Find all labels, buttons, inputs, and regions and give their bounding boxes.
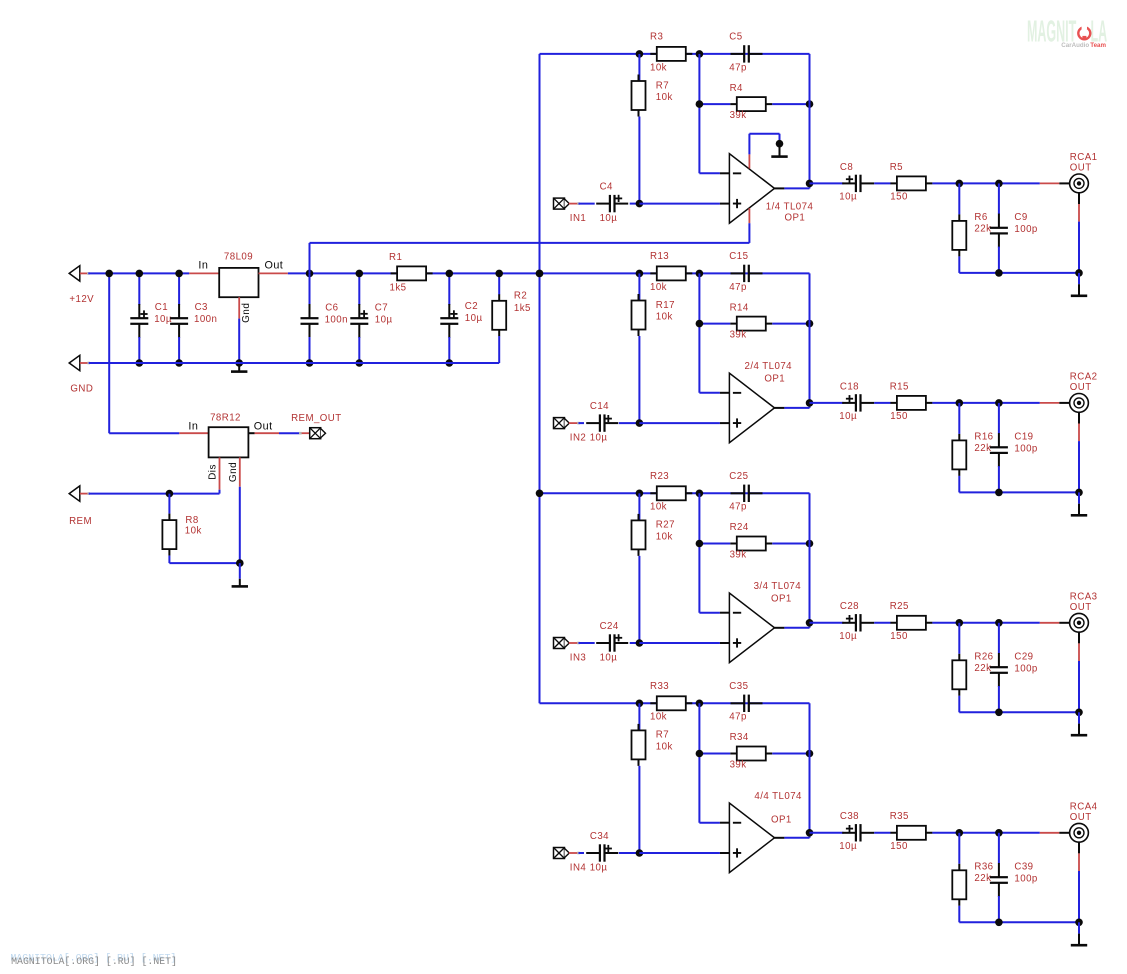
wire feedback column (809, 493, 811, 623)
junction (446, 270, 454, 278)
junction RCA ground (1075, 269, 1083, 277)
svg-text:47p: 47p (729, 712, 747, 723)
junction (495, 270, 503, 278)
capacitor C24 10u (596, 634, 628, 652)
wire output bottom row (959, 921, 1079, 923)
lead op-amp output (775, 627, 785, 629)
pin RCA2 ground (1078, 424, 1080, 442)
wire output (784, 837, 809, 839)
junction feedback top (696, 700, 704, 708)
wire input to cap (579, 422, 585, 424)
junction C9 bottom (995, 269, 1003, 277)
junction R4 right (806, 750, 814, 758)
lead inverting input (720, 612, 730, 614)
svg-text:R25: R25 (890, 601, 909, 612)
wire REM row (89, 493, 220, 495)
lead RCA (1059, 832, 1069, 834)
capacitor C1 10u (130, 304, 148, 338)
svg-text:3/4 TL074: 3/4 TL074 (754, 581, 802, 592)
resistor R23 10k (650, 486, 692, 500)
wire feedback column (809, 273, 811, 403)
svg-text:R2: R2 (514, 290, 527, 301)
capacitor C5 47p (731, 45, 763, 62)
wire to ground symbol (1078, 492, 1080, 503)
connector IN2 flag (554, 418, 570, 429)
pin 78L09 In (189, 272, 219, 274)
wire C1 bottom (138, 337, 140, 363)
wire to inverting input (699, 172, 720, 174)
wire to non-inverting input (639, 642, 720, 644)
wire C9 top (998, 833, 1000, 864)
pin V+ (748, 208, 750, 223)
junction (136, 359, 144, 367)
svg-text:C25: C25 (729, 471, 748, 482)
pin REM_OUT flag (300, 432, 310, 434)
lead RCA ground (1078, 412, 1080, 423)
svg-text:IN1: IN1 (570, 213, 586, 224)
svg-text:100p: 100p (1014, 663, 1037, 674)
wire R6 bottom (958, 476, 960, 493)
svg-text:47p: 47p (729, 282, 747, 293)
svg-text:R27: R27 (656, 520, 675, 531)
resistor R16 22k (952, 434, 966, 476)
svg-text:C1: C1 (155, 302, 168, 313)
pin IN3 (569, 642, 579, 644)
svg-text:C34: C34 (590, 831, 609, 842)
svg-text:10µ: 10µ (375, 315, 393, 326)
wire feedback column (809, 54, 811, 184)
svg-text:10µ: 10µ (839, 192, 857, 203)
junction R-div top (636, 50, 644, 58)
junction output node (806, 829, 814, 837)
svg-text:OUT: OUT (1070, 812, 1092, 823)
connector +12V arrow (69, 266, 80, 281)
logo MAGNITOLA top right (1027, 15, 1107, 49)
junction R-div top (636, 270, 644, 278)
junction RCA ground (1075, 709, 1083, 717)
svg-text:C14: C14 (590, 401, 609, 412)
wire R-div column lower (638, 117, 640, 204)
wire R-div column lower (638, 766, 640, 853)
op-amp 4/4 TL074 OP1 (729, 803, 774, 873)
connector IN3 flag (554, 638, 570, 649)
svg-text:C38: C38 (840, 811, 859, 822)
wire RCA ground down (1078, 871, 1080, 922)
wire output row (810, 182, 844, 184)
svg-text:R33: R33 (650, 681, 669, 692)
svg-text:22k: 22k (974, 663, 991, 674)
wire cap to node (630, 203, 640, 205)
wire to non-inverting input (639, 852, 720, 854)
junction non-inverting node (636, 639, 644, 647)
wire R5 to RCA (932, 402, 1039, 404)
op-amp 2/4 TL074 OP1 (729, 373, 774, 443)
wire channel top row (540, 702, 810, 704)
wire inverting node column (698, 54, 700, 173)
junction (136, 270, 144, 278)
wire R5 to RCA (932, 622, 1039, 624)
svg-text:R16: R16 (974, 432, 993, 443)
wire V+ pin down (748, 223, 750, 243)
svg-text:R15: R15 (890, 381, 909, 392)
junction R-div top (636, 490, 644, 498)
svg-text:Team: Team (1090, 42, 1106, 49)
svg-text:C3: C3 (195, 302, 208, 313)
wire inverting node column (698, 273, 700, 392)
ground symbol under RCA (1071, 934, 1087, 947)
wire R6 top (958, 183, 960, 214)
svg-text:100n: 100n (325, 315, 348, 326)
pin 78L09 Out (259, 272, 288, 274)
wire cap to node (619, 852, 640, 854)
capacitor C9 100p (990, 214, 1008, 248)
wire feedback column (809, 703, 811, 833)
resistor R26 22k (952, 654, 966, 696)
svg-text:10µ: 10µ (465, 313, 483, 324)
wire C6 top (309, 273, 311, 305)
wire R4 row right (772, 103, 809, 105)
wire R6 bottom (958, 696, 960, 713)
lead op-amp output (775, 187, 785, 189)
resistor R24 39k (730, 537, 772, 551)
junction +12V/78R12 feed (105, 270, 113, 278)
junction output node (806, 619, 814, 627)
lead RCA ground (1078, 193, 1080, 204)
svg-text:22k: 22k (974, 873, 991, 884)
lead inverting input (720, 172, 730, 174)
svg-text:10k: 10k (650, 502, 667, 513)
wire inverting node column (698, 493, 700, 612)
wire input to cap (579, 852, 585, 854)
junction (446, 359, 454, 367)
resistor R17 10k (632, 294, 646, 336)
pin RCA3 signal (1040, 622, 1060, 624)
wire output jog (809, 623, 811, 628)
lead op-amp output (775, 407, 785, 409)
pin RCA3 ground (1078, 643, 1080, 661)
junction R4 right (806, 540, 814, 548)
ground symbol under 78L09 (231, 363, 247, 373)
junction C9 bottom (995, 919, 1003, 927)
wire inverting node column (698, 703, 700, 822)
junction R-div top (636, 700, 644, 708)
wire cap to node (630, 642, 640, 644)
junction (356, 359, 364, 367)
wire to inverting input (699, 392, 720, 394)
svg-text:+12V: +12V (69, 294, 94, 305)
junction gnd node (236, 559, 244, 567)
svg-text:10µ: 10µ (590, 862, 608, 873)
capacitor C2 10u (440, 304, 458, 338)
wire REM_OUT (279, 432, 300, 434)
wire down to ground dot (779, 134, 781, 144)
svg-text:150: 150 (890, 841, 908, 852)
wire to non-inverting input (639, 422, 720, 424)
pin RCA1 signal (1040, 182, 1060, 184)
pin lead GND (80, 362, 89, 364)
resistor R1 1k5 (391, 266, 433, 280)
wire C7 top (358, 273, 360, 305)
resistor R35 150 (890, 826, 932, 840)
svg-text:R5: R5 (890, 162, 903, 173)
wire output bottom row (959, 711, 1079, 713)
wire C9 bottom (998, 896, 1000, 922)
svg-text:78R12: 78R12 (210, 412, 241, 423)
connector REM arrow (69, 486, 80, 501)
junction C9 top (995, 829, 1003, 837)
pin IN2 (569, 422, 579, 424)
svg-text:C24: C24 (600, 621, 619, 632)
junction C9 top (995, 180, 1003, 188)
svg-text:C2: C2 (465, 301, 478, 312)
capacitor C38 10u (842, 824, 874, 841)
svg-text:CarAudio: CarAudio (1061, 42, 1089, 49)
pin IN4 (569, 852, 579, 854)
wire output row (810, 622, 844, 624)
wire channel top row (540, 53, 810, 55)
wire R6 top (958, 833, 960, 864)
junction (306, 270, 314, 278)
resistor R15 150 (890, 396, 932, 410)
wire R2 top (498, 273, 500, 294)
capacitor C8 10u (842, 175, 874, 192)
svg-text:OP1: OP1 (771, 814, 792, 825)
regulator IC 78R12 (209, 427, 249, 457)
ground symbol at op-amp (771, 144, 787, 158)
junction C9 top (995, 399, 1003, 407)
svg-text:R34: R34 (730, 732, 749, 743)
junction C9 bottom (995, 709, 1003, 717)
wire cap to R5 (874, 832, 890, 834)
junction rail/top row (536, 270, 544, 278)
wire output (784, 627, 809, 629)
pin RCA2 signal (1040, 402, 1060, 404)
svg-text:47p: 47p (729, 502, 747, 513)
lead non-inverting input (720, 422, 730, 424)
junction C9 bottom (995, 489, 1003, 497)
svg-text:Dis: Dis (208, 464, 219, 480)
svg-text:IN3: IN3 (570, 653, 586, 664)
wire 78L09 Gnd down (238, 319, 240, 363)
ground symbol under 78R12 (232, 579, 248, 588)
wire output bottom row (959, 491, 1079, 493)
wire C9 bottom (998, 247, 1000, 273)
lead non-inverting input (720, 642, 730, 644)
svg-text:10k: 10k (656, 531, 673, 542)
connector IN4 flag (554, 848, 570, 859)
svg-text:4/4 TL074: 4/4 TL074 (754, 791, 802, 802)
svg-text:10µ: 10µ (590, 432, 608, 443)
ground symbol under RCA (1071, 724, 1087, 737)
svg-text:R35: R35 (890, 811, 909, 822)
junction R4 right (806, 100, 814, 108)
wire +9V up to op-amp supply return row (309, 243, 311, 274)
wire R4 row left (699, 103, 730, 105)
connector GND arrow (69, 355, 80, 370)
wire input to cap (579, 203, 595, 205)
svg-text:C15: C15 (729, 251, 748, 262)
svg-text:C29: C29 (1014, 651, 1033, 662)
wire RCA ground down (1078, 222, 1080, 273)
wire to ground symbol (1078, 712, 1080, 723)
junction REM/R8 (166, 490, 174, 498)
capacitor C4 10u (596, 195, 628, 212)
connector IN1 flag (554, 198, 570, 209)
junction RCA ground (1075, 489, 1083, 497)
svg-text:C7: C7 (375, 302, 388, 313)
svg-text:150: 150 (890, 192, 908, 203)
wire R4 row left (699, 323, 730, 325)
wire R6 top (958, 403, 960, 434)
capacitor C14 10u (586, 414, 618, 431)
wire channel top row (540, 272, 810, 274)
wire to non-inverting input (639, 203, 720, 205)
wire R5 to RCA (932, 182, 1039, 184)
wire R8 bottom (168, 556, 170, 564)
connector RCA4 (1070, 823, 1089, 842)
wire R5 to RCA (932, 832, 1039, 834)
svg-text:R17: R17 (656, 300, 675, 311)
svg-text:39k: 39k (730, 329, 747, 340)
wire R2 bottom (498, 336, 500, 363)
svg-text:Gnd: Gnd (228, 462, 239, 482)
wire V- to ground (749, 133, 779, 135)
lead RCA (1059, 622, 1069, 624)
svg-text:10µ: 10µ (839, 631, 857, 642)
pin 78L09 Gnd (238, 297, 240, 318)
wire R4 row right (772, 323, 809, 325)
svg-text:In: In (188, 421, 198, 433)
svg-text:RCA3: RCA3 (1070, 591, 1098, 602)
wire to inverting input (699, 822, 720, 824)
svg-text:MAGNITOLA[.ORG] [.RU] [.NET]: MAGNITOLA[.ORG] [.RU] [.NET] (11, 956, 177, 967)
wire cap to R5 (874, 622, 890, 624)
wire output jog (809, 403, 811, 408)
wire RCA ground down (1078, 441, 1080, 492)
svg-text:R7: R7 (656, 730, 669, 741)
svg-text:OUT: OUT (1070, 602, 1092, 613)
resistor R13 10k (650, 266, 692, 280)
pin RCA4 ground (1078, 853, 1080, 871)
junction feedback top (696, 270, 704, 278)
svg-text:Gnd: Gnd (241, 303, 252, 323)
pin 78R12 Gnd (239, 457, 241, 486)
svg-text:RCA1: RCA1 (1070, 152, 1098, 163)
lead RCA (1059, 182, 1069, 184)
junction non-inverting node (636, 200, 644, 208)
ground symbol under RCA (1071, 504, 1087, 517)
wire to inverting input (699, 612, 720, 614)
svg-text:C19: C19 (1014, 432, 1033, 443)
capacitor C18 10u (842, 394, 874, 411)
svg-text:OUT: OUT (1070, 382, 1092, 393)
svg-text:10µ: 10µ (600, 213, 618, 224)
svg-text:10k: 10k (656, 92, 673, 103)
resistor R2 1k5 (492, 294, 506, 336)
wire R8 top (168, 494, 170, 514)
resistor R25 150 (890, 616, 932, 630)
svg-text:C6: C6 (325, 302, 338, 313)
wire R6 bottom (958, 906, 960, 923)
capacitor C39 100p (990, 863, 1008, 897)
wire R4 row right (772, 753, 809, 755)
svg-text:C8: C8 (840, 162, 853, 173)
op-amp 3/4 TL074 OP1 (729, 593, 774, 663)
wire C6 bottom (309, 337, 311, 363)
svg-text:10k: 10k (650, 282, 667, 293)
svg-text:R4: R4 (730, 83, 743, 94)
wire output (784, 407, 809, 409)
wire +9V vertical rail (539, 54, 541, 703)
wire RCA ground down (1078, 661, 1080, 712)
capacitor C25 47p (731, 485, 763, 502)
pin 78R12 Dis (219, 457, 221, 489)
pin RCA1 ground (1078, 204, 1080, 222)
junction 78L09 gnd (235, 359, 243, 367)
svg-text:C39: C39 (1014, 861, 1033, 872)
svg-text:10µ: 10µ (839, 411, 857, 422)
wire C9 top (998, 183, 1000, 214)
svg-text:R26: R26 (974, 651, 993, 662)
wire V- pin up (748, 134, 750, 155)
capacitor C19 100p (990, 433, 1008, 467)
svg-text:39k: 39k (730, 759, 747, 770)
junction output node (806, 180, 814, 188)
junction (536, 270, 544, 278)
junction R4 right (806, 320, 814, 328)
wire output row (810, 402, 844, 404)
wire cap to R5 (874, 182, 890, 184)
resistor R14 39k (730, 317, 772, 331)
lead RCA ground (1078, 842, 1080, 853)
junction (175, 270, 183, 278)
resistor R6 22k (952, 214, 966, 256)
resistor R27 10k (632, 514, 646, 556)
wire to ground symbol (1078, 273, 1080, 284)
pin IN1 (569, 203, 579, 205)
svg-text:10µ: 10µ (154, 314, 172, 325)
wire C9 top (998, 403, 1000, 434)
junction rail/top row (536, 490, 544, 498)
connector RCA3 (1070, 613, 1089, 632)
svg-text:R23: R23 (650, 471, 669, 482)
svg-text:IN2: IN2 (570, 433, 586, 444)
wire R-div column (638, 273, 640, 301)
wire C3 top (178, 273, 180, 305)
wire channel top row (540, 492, 810, 494)
ground symbol under RCA (1071, 284, 1087, 297)
resistor R36 22k (952, 864, 966, 906)
wire C2 top (448, 273, 450, 305)
junction feedback top (696, 490, 704, 498)
junction (306, 359, 314, 367)
svg-text:39k: 39k (730, 549, 747, 560)
wire R4 row left (699, 753, 730, 755)
lead 78R12 Out (248, 432, 254, 434)
wire Dis stub (219, 490, 221, 494)
svg-text:10k: 10k (185, 525, 202, 536)
svg-text:100n: 100n (194, 314, 217, 325)
svg-text:R6: R6 (974, 212, 987, 223)
lead non-inverting input (720, 852, 730, 854)
wire output row (810, 832, 844, 834)
wire cap to R5 (874, 402, 890, 404)
junction RCA ground (1075, 919, 1083, 927)
capacitor C6 100n (301, 304, 319, 338)
wire R-div column lower (638, 556, 640, 643)
junction R4 left (696, 750, 704, 758)
capacitor C29 100p (990, 653, 1008, 687)
